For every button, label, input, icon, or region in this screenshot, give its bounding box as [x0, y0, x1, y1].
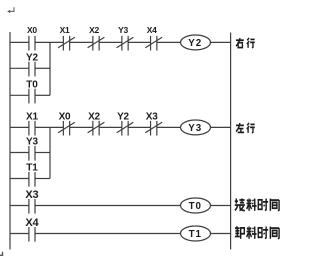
svg-text:Y3: Y3 — [26, 137, 38, 148]
contact X3 rung2 (NC) — [150, 121, 152, 136]
svg-text:X3: X3 — [146, 112, 158, 123]
svg-text:X2: X2 — [89, 25, 99, 35]
svg-text:Y2: Y2 — [188, 38, 202, 49]
coil T1 — [181, 226, 211, 241]
branch wire T1 row: rail to contact — [10, 178, 29, 180]
contact Y3 (NO, parallel) — [28, 146, 30, 161]
rung4 wire: rail to X4 — [10, 233, 29, 235]
svg-text:X4: X4 — [25, 217, 39, 229]
contact X0 rung2 (NC) — [62, 121, 64, 136]
rung2 wire: X2 to Y2 — [99, 126, 122, 128]
contact X0 (NO) — [28, 36, 30, 51]
contact X2 (NC) — [92, 36, 94, 51]
svg-text:T0: T0 — [189, 201, 202, 212]
rung2 wire: X0 to X2 — [70, 126, 93, 128]
branch wire T0 row: rail to T0 contact — [10, 94, 29, 96]
svg-text:X3: X3 — [25, 189, 38, 201]
branch wire Y2 row: rail to Y2 contact — [10, 67, 29, 69]
right power rail — [230, 33, 232, 250]
label 左行 (left travel) — [236, 123, 255, 133]
branch wire Y2 row: contact to junction — [35, 67, 50, 69]
svg-text:X0: X0 — [59, 112, 71, 123]
svg-text:X4: X4 — [147, 25, 157, 35]
label 右行 (right travel) — [236, 38, 255, 48]
rung1 wire: Y3 to X4 — [128, 41, 150, 43]
rung2 wire: Y2 to X3 — [128, 126, 150, 128]
coil Y2 — [181, 35, 211, 50]
rung2 wire: rail to X1 — [10, 126, 29, 128]
svg-text:X2: X2 — [88, 112, 100, 123]
branch wire Y3 row: rail to contact — [10, 152, 29, 154]
rung1 wire: X1 to X2 — [70, 41, 93, 43]
contact X4 (NC) — [150, 36, 152, 51]
left power rail — [9, 32, 11, 250]
contact X2 rung2 (NC) — [92, 121, 94, 136]
rung3 wire: rail to X3 — [10, 205, 29, 207]
paragraph return mark (gray) — [10, 7, 14, 11]
junction line rung2 group — [49, 127, 51, 178]
svg-text:Y2: Y2 — [26, 53, 38, 64]
rung3 wire: X3 to coil T0 — [35, 205, 181, 207]
svg-text:T0: T0 — [26, 80, 38, 91]
branch wire Y3 row: contact to junction — [35, 152, 50, 154]
rung1 wire: rail to X0 — [10, 41, 29, 43]
rung1 wire: X2 to Y3 — [99, 41, 122, 43]
partial return mark bottom-left (gray) — [0, 252, 3, 256]
rung2 wire: coil Y3 to right rail — [211, 126, 231, 128]
coil Y3 — [181, 120, 211, 135]
svg-text:X1: X1 — [60, 25, 70, 35]
coil T0 — [181, 198, 211, 213]
contact X1 rung2 (NO) — [28, 121, 30, 136]
contact Y2 (NO, parallel) — [28, 62, 30, 77]
label 装料时间 (loading time) — [235, 198, 279, 210]
contact X1 (NC) — [62, 36, 64, 51]
svg-text:T1: T1 — [189, 229, 202, 240]
svg-text:Y3: Y3 — [188, 123, 202, 134]
contact X4 (NO) — [28, 227, 30, 242]
rung3 wire: coil T0 to right rail — [211, 205, 231, 207]
rung1 wire: coil Y2 to right rail — [211, 41, 231, 43]
svg-text:Y2: Y2 — [117, 112, 129, 123]
rung1 wire: X4 to coil Y2 — [157, 41, 181, 43]
label 卸料时间 (unloading time) — [235, 226, 279, 238]
contact Y3 (NC) — [121, 36, 123, 51]
contact Y2 rung2 (NC) — [121, 121, 123, 136]
branch wire T1 row: contact to junction — [35, 178, 50, 180]
contact T1 (NO, parallel) — [28, 172, 30, 187]
junction line rung1 group — [49, 42, 51, 95]
rung2 wire: X3 to coil Y3 — [157, 126, 181, 128]
branch wire T0 row: contact to junction — [35, 94, 50, 96]
svg-text:X1: X1 — [26, 112, 38, 123]
rung4 wire: X4 to coil T1 — [35, 233, 181, 235]
svg-text:Y3: Y3 — [118, 25, 128, 35]
svg-text:T1: T1 — [26, 163, 38, 174]
contact X3 (NO) — [28, 199, 30, 214]
contact T0 (NO, parallel) — [28, 89, 30, 104]
rung1 wire: X0 to X1 (through junction node) — [35, 41, 63, 43]
rung4 wire: coil T1 to right rail — [211, 233, 231, 235]
svg-text:X0: X0 — [27, 25, 37, 35]
rung2 wire: X1 to X0 — [35, 126, 63, 128]
